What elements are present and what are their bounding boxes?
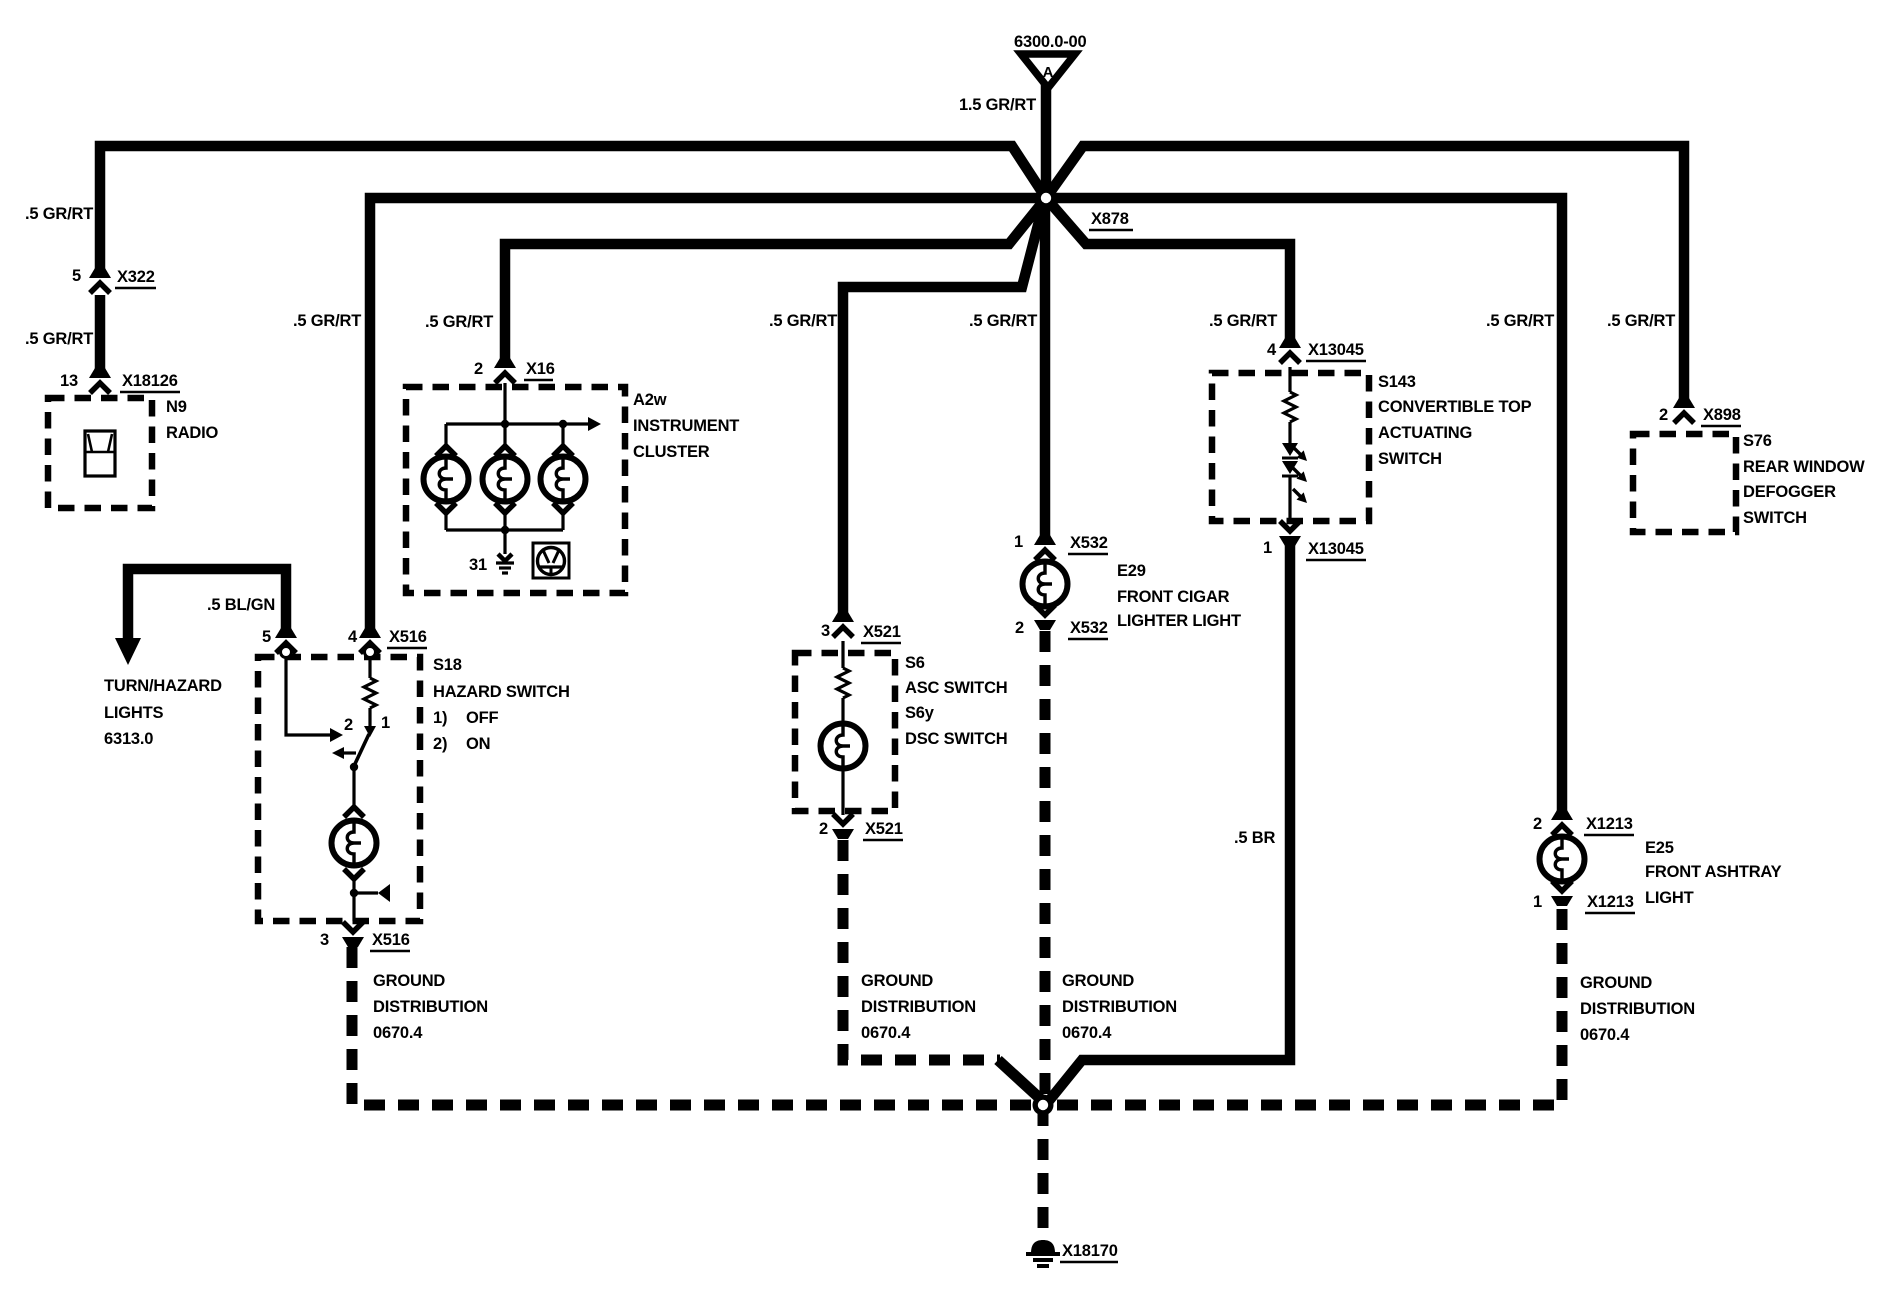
svg-text:GROUND: GROUND bbox=[861, 972, 933, 990]
cluster bottom dot bbox=[501, 526, 509, 534]
S18 lamp up arrow bbox=[344, 807, 364, 817]
S143 LED emission arrows bbox=[1293, 447, 1307, 503]
instrument cluster A2w dashed box bbox=[406, 387, 625, 593]
label GROUND DISTRIBUTION 0670.4 E25 bbox=[1580, 974, 1695, 1044]
svg-text:1): 1) bbox=[433, 709, 447, 727]
svg-text:HAZARD SWITCH: HAZARD SWITCH bbox=[433, 683, 570, 701]
svg-text:X516: X516 bbox=[372, 931, 410, 949]
S18 pin 4 terminal circle bbox=[365, 647, 376, 658]
S18 lamp down arrow bbox=[344, 869, 364, 879]
svg-text:2: 2 bbox=[344, 716, 353, 734]
svg-text:1: 1 bbox=[1263, 539, 1272, 557]
svg-text:.5 GR/RT: .5 GR/RT bbox=[1486, 312, 1554, 330]
label pin 4 X516 bbox=[348, 628, 427, 648]
svg-text:LIGHTS: LIGHTS bbox=[104, 704, 163, 722]
connector X521 pin 3 bbox=[832, 612, 854, 637]
label A2w INSTRUMENT CLUSTER bbox=[633, 391, 739, 461]
label N9 RADIO bbox=[166, 398, 219, 442]
svg-text:X1213: X1213 bbox=[1587, 893, 1634, 911]
svg-text:1: 1 bbox=[1533, 893, 1542, 911]
svg-text:E25: E25 bbox=[1645, 839, 1674, 857]
S143 LED diodes bbox=[1282, 422, 1298, 519]
svg-text:ASC SWITCH: ASC SWITCH bbox=[905, 679, 1008, 697]
svg-text:X18126: X18126 bbox=[122, 372, 178, 390]
svg-text:X322: X322 bbox=[117, 268, 155, 286]
svg-text:1: 1 bbox=[381, 714, 390, 732]
svg-text:X532: X532 bbox=[1070, 619, 1108, 637]
connector X898 pin 2 bbox=[1673, 398, 1695, 423]
ground wire to X18170 bbox=[1038, 1105, 1049, 1237]
cluster lamp 1 branch bbox=[424, 424, 469, 530]
svg-text:5: 5 bbox=[262, 628, 271, 646]
svg-text:S143: S143 bbox=[1378, 373, 1416, 391]
label 2 X16 bbox=[474, 360, 555, 380]
connector X13045 pin 1 bbox=[1279, 521, 1301, 546]
svg-text:.5 GR/RT: .5 GR/RT bbox=[769, 312, 837, 330]
wire turn/hazard branch bbox=[115, 569, 286, 665]
S143 resistor bbox=[1284, 367, 1296, 422]
label S143 CONVERTIBLE TOP ACTUATING SWITCH bbox=[1378, 373, 1532, 468]
svg-text:X521: X521 bbox=[863, 623, 901, 641]
svg-text:CLUSTER: CLUSTER bbox=[633, 443, 710, 461]
wire radio drop below X322 bbox=[95, 295, 106, 377]
svg-text:X898: X898 bbox=[1703, 406, 1741, 424]
ground junction bbox=[1033, 1095, 1054, 1116]
ground wire E29 bbox=[1040, 631, 1051, 1105]
svg-text:6313.0: 6313.0 bbox=[104, 730, 153, 748]
ground wire E25 bbox=[1048, 909, 1562, 1105]
label X878 bbox=[1089, 210, 1133, 230]
S18 lamp bbox=[332, 821, 377, 866]
svg-text:DISTRIBUTION: DISTRIBUTION bbox=[1580, 1000, 1695, 1018]
S6 resistor bbox=[837, 641, 849, 698]
svg-text:2: 2 bbox=[474, 360, 483, 378]
cluster top rail with arrow bbox=[446, 417, 601, 431]
svg-text:.5 GR/RT: .5 GR/RT bbox=[293, 312, 361, 330]
svg-text:X13045: X13045 bbox=[1308, 341, 1364, 359]
svg-text:.5 GR/RT: .5 GR/RT bbox=[425, 313, 493, 331]
junction X878 bbox=[1036, 188, 1057, 209]
label 5 X322 bbox=[72, 267, 156, 288]
S18 buzzer bbox=[354, 884, 390, 902]
label E29 FRONT CIGAR LIGHTER LIGHT bbox=[1117, 562, 1241, 630]
svg-text:1: 1 bbox=[1014, 533, 1023, 551]
rear window defogger switch S76 dashed box bbox=[1633, 434, 1736, 532]
wire S6 feed bbox=[843, 202, 1044, 621]
label TURN/HAZARD LIGHTS 6313.0 bbox=[104, 677, 222, 748]
svg-text:6300.0-00: 6300.0-00 bbox=[1014, 33, 1087, 51]
label GROUND DISTRIBUTION 0670.4 hazard bbox=[373, 972, 488, 1042]
svg-text:A2w: A2w bbox=[633, 391, 667, 409]
label 13 X18126 bbox=[60, 372, 180, 392]
wire feed from fuse triangle to X878 bbox=[1041, 84, 1052, 196]
connector X532 pin 1 bbox=[1034, 535, 1056, 560]
connector X521 pin 2 bbox=[832, 814, 854, 839]
svg-text:.5 BR: .5 BR bbox=[1234, 829, 1275, 847]
svg-text:0670.4: 0670.4 bbox=[1062, 1024, 1112, 1042]
ground wire hazard switch bbox=[352, 947, 1043, 1105]
label 1 X1213 bbox=[1533, 893, 1635, 913]
S18 contact 1 lead bbox=[364, 708, 376, 737]
label 3 X521 bbox=[821, 622, 901, 643]
S18 pin5 inner wire to contact 2 bbox=[286, 658, 343, 742]
wire top rail right to defogger switch bbox=[1046, 146, 1684, 407]
svg-text:LIGHTER LIGHT: LIGHTER LIGHT bbox=[1117, 612, 1241, 630]
label 4 X13045 bbox=[1267, 341, 1366, 361]
svg-text:0670.4: 0670.4 bbox=[861, 1024, 911, 1042]
svg-text:DISTRIBUTION: DISTRIBUTION bbox=[861, 998, 976, 1016]
svg-text:.5 GR/RT: .5 GR/RT bbox=[1607, 312, 1675, 330]
ground wire S6 bbox=[843, 840, 1000, 1060]
svg-text:SWITCH: SWITCH bbox=[1743, 509, 1807, 527]
svg-text:4: 4 bbox=[348, 628, 358, 646]
S18 resistor bbox=[364, 658, 376, 708]
S18 pivot dot bbox=[350, 763, 358, 771]
svg-text:S6: S6 bbox=[905, 654, 925, 672]
svg-text:INSTRUMENT: INSTRUMENT bbox=[633, 417, 739, 435]
label E25 FRONT ASHTRAY LIGHT bbox=[1645, 839, 1782, 907]
svg-text:X13045: X13045 bbox=[1308, 540, 1364, 558]
svg-text:X878: X878 bbox=[1091, 210, 1129, 228]
S18 throw arrow bbox=[332, 747, 356, 759]
label S6 ASC SWITCH S6y DSC SWITCH bbox=[905, 654, 1008, 748]
svg-text:2: 2 bbox=[819, 820, 828, 838]
svg-text:.5 GR/RT: .5 GR/RT bbox=[1209, 312, 1277, 330]
svg-text:S76: S76 bbox=[1743, 432, 1772, 450]
svg-text:13: 13 bbox=[60, 372, 78, 390]
hazard switch S18 dashed box bbox=[258, 657, 420, 921]
svg-text:GROUND: GROUND bbox=[373, 972, 445, 990]
connector X322 bbox=[89, 268, 111, 293]
cluster ground symbol bbox=[496, 554, 514, 573]
svg-text:2): 2) bbox=[433, 735, 447, 753]
svg-text:1.5 GR/RT: 1.5 GR/RT bbox=[959, 96, 1036, 114]
wire .5 BR convertible top to ground junction bbox=[1048, 544, 1290, 1102]
cluster rail dots bbox=[501, 420, 567, 428]
S6 lamp bbox=[821, 698, 866, 815]
label 2 X521 bbox=[819, 820, 903, 840]
label GROUND DISTRIBUTION 0670.4 E29 bbox=[1062, 972, 1177, 1042]
connector X532 pin 2 bbox=[1034, 605, 1056, 630]
svg-text:ACTUATING: ACTUATING bbox=[1378, 424, 1472, 442]
S18 pin 5 terminal circle bbox=[281, 647, 292, 658]
connector X1213 pin 1 bbox=[1551, 881, 1573, 906]
cluster pin2 inner lead bbox=[503, 383, 506, 424]
svg-text:X516: X516 bbox=[389, 628, 427, 646]
svg-text:X1213: X1213 bbox=[1586, 815, 1633, 833]
svg-text:N9: N9 bbox=[166, 398, 187, 416]
svg-text:DISTRIBUTION: DISTRIBUTION bbox=[373, 998, 488, 1016]
label 2 X532 bbox=[1015, 619, 1108, 639]
svg-text:2: 2 bbox=[1015, 619, 1024, 637]
svg-text:DEFOGGER: DEFOGGER bbox=[1743, 483, 1836, 501]
svg-text:A: A bbox=[1043, 64, 1054, 81]
connector X13045 pin 4 bbox=[1279, 338, 1301, 363]
wire mid rail left to hazard switch pin 4 bbox=[370, 198, 1046, 637]
S18 wire lamp to node bbox=[352, 879, 355, 921]
cluster bottom rail bbox=[446, 528, 563, 531]
svg-text:CONVERTIBLE TOP: CONVERTIBLE TOP bbox=[1378, 398, 1532, 416]
svg-text:S6y: S6y bbox=[905, 704, 935, 722]
wire low rail right to convertible top switch bbox=[1046, 198, 1290, 347]
radio N9 dashed box bbox=[48, 398, 152, 508]
connector X516 pin 4 bbox=[359, 628, 381, 653]
cluster lamp 3 branch bbox=[541, 424, 586, 530]
connector X16 pin 2 bbox=[494, 358, 516, 383]
svg-text:2: 2 bbox=[1533, 815, 1542, 833]
connector hazard pin 5 bbox=[275, 628, 297, 653]
lamp E29 bbox=[1023, 562, 1068, 607]
svg-text:4: 4 bbox=[1267, 341, 1277, 359]
svg-text:ON: ON bbox=[466, 735, 490, 753]
svg-text:X532: X532 bbox=[1070, 534, 1108, 552]
svg-text:31: 31 bbox=[469, 556, 487, 574]
convertible top switch S143 dashed box bbox=[1212, 373, 1369, 521]
S18 wire pivot to lamp bbox=[352, 769, 355, 806]
label 1 X532 bbox=[1014, 533, 1108, 554]
label S76 REAR WINDOW DEFOGGER SWITCH bbox=[1743, 432, 1865, 527]
svg-text:3: 3 bbox=[821, 622, 830, 640]
wire mid rail right to ashtray light bbox=[1046, 198, 1562, 819]
svg-text:0670.4: 0670.4 bbox=[373, 1024, 423, 1042]
svg-text:GROUND: GROUND bbox=[1580, 974, 1652, 992]
svg-text:.5 GR/RT: .5 GR/RT bbox=[969, 312, 1037, 330]
svg-text:E29: E29 bbox=[1117, 562, 1146, 580]
radio icon bbox=[85, 431, 115, 476]
cluster steering wheel icon bbox=[533, 543, 569, 578]
svg-text:SWITCH: SWITCH bbox=[1378, 450, 1442, 468]
svg-text:DISTRIBUTION: DISTRIBUTION bbox=[1062, 998, 1177, 1016]
svg-text:X521: X521 bbox=[865, 820, 903, 838]
label 1 X13045 bbox=[1263, 539, 1366, 560]
cluster lamp 2 branch bbox=[483, 424, 528, 530]
svg-text:GROUND: GROUND bbox=[1062, 972, 1134, 990]
svg-text:5: 5 bbox=[72, 267, 81, 285]
svg-text:0670.4: 0670.4 bbox=[1580, 1026, 1630, 1044]
svg-text:FRONT CIGAR: FRONT CIGAR bbox=[1117, 588, 1230, 606]
wire low rail left to instrument cluster bbox=[505, 198, 1046, 367]
label 3 X516 bbox=[320, 931, 410, 951]
wire top rail left to radio bbox=[100, 146, 1046, 278]
svg-text:S18: S18 bbox=[433, 656, 462, 674]
label GROUND DISTRIBUTION 0670.4 S6 bbox=[861, 972, 976, 1042]
svg-text:3: 3 bbox=[320, 931, 329, 949]
connector X516 pin 3 bbox=[342, 922, 364, 947]
svg-text:2: 2 bbox=[1659, 406, 1668, 424]
svg-text:.5 GR/RT: .5 GR/RT bbox=[25, 330, 93, 348]
svg-text:REAR WINDOW: REAR WINDOW bbox=[1743, 458, 1865, 476]
lamp E25 bbox=[1540, 837, 1585, 882]
svg-text:X16: X16 bbox=[526, 360, 555, 378]
label 2 X1213 bbox=[1533, 815, 1634, 835]
svg-text:RADIO: RADIO bbox=[166, 424, 219, 442]
svg-text:X18170: X18170 bbox=[1062, 1242, 1118, 1260]
label X18170 bbox=[1060, 1242, 1118, 1262]
svg-text:FRONT ASHTRAY: FRONT ASHTRAY bbox=[1645, 863, 1782, 881]
S18 node dot bbox=[350, 889, 358, 897]
svg-text:.5 BL/GN: .5 BL/GN bbox=[207, 596, 275, 614]
connector X1213 pin 2 bbox=[1551, 810, 1573, 835]
svg-text:DSC SWITCH: DSC SWITCH bbox=[905, 730, 1008, 748]
svg-text:TURN/HAZARD: TURN/HAZARD bbox=[104, 677, 222, 695]
svg-text:OFF: OFF bbox=[466, 709, 499, 727]
svg-text:LIGHT: LIGHT bbox=[1645, 889, 1694, 907]
label S18 HAZARD SWITCH 1) OFF 2) ON bbox=[433, 656, 570, 753]
S6 dashed box bbox=[795, 653, 895, 811]
svg-text:.5 GR/RT: .5 GR/RT bbox=[25, 205, 93, 223]
cluster ground lead pin 31 bbox=[503, 530, 506, 554]
ground symbol X18170 bbox=[1026, 1240, 1060, 1266]
wire E29 feed bbox=[1040, 198, 1051, 544]
S18 switch arm bbox=[354, 734, 369, 766]
power triangle A bbox=[1021, 54, 1075, 88]
label 2 X898 bbox=[1659, 406, 1741, 426]
connector X18126 bbox=[89, 368, 111, 393]
